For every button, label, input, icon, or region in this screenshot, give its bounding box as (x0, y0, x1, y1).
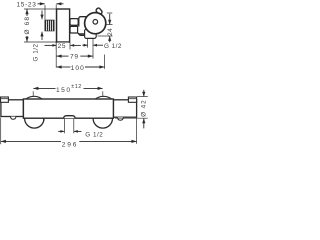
dimension 296 (1, 118, 137, 149)
right escutcheon top arc (95, 96, 112, 99)
wall extension line (55, 5, 57, 68)
hatched inlet nipple (45, 20, 55, 32)
outlet boss lower block (85, 29, 97, 38)
svg-text:79: 79 (70, 53, 79, 60)
handle knob circle (85, 13, 106, 34)
left escutcheon top arc (26, 96, 43, 99)
svg-text:296: 296 (62, 141, 78, 148)
mixer bar body (23, 99, 113, 118)
dimension 15-23 (16, 1, 63, 8)
svg-text:Ø 42: Ø 42 (140, 99, 147, 116)
svg-text:G 1/2: G 1/2 (85, 131, 103, 138)
left knob (1, 100, 24, 117)
dimension 100 (56, 65, 104, 72)
svg-text:24: 24 (107, 28, 114, 36)
dimension 25 (escutcheon depth) (45, 43, 81, 51)
dimension 150 +/-12 (33, 84, 103, 97)
svg-text:±12: ±12 (71, 84, 81, 90)
dimension 79 (56, 53, 93, 60)
union nut (side view) (70, 19, 78, 26)
svg-text:G 1/2: G 1/2 (104, 43, 122, 50)
svg-text:G 1/2: G 1/2 (32, 44, 39, 62)
svg-text:150: 150 (56, 87, 72, 94)
dimension diameter 68 (24, 9, 56, 42)
right knob (113, 100, 136, 117)
extension lines outlet boss (87, 39, 89, 48)
svg-text:25: 25 (58, 43, 66, 50)
right knob screw bump (117, 117, 123, 120)
left knob screw bump (10, 117, 16, 120)
svg-text:Ø 68: Ø 68 (24, 16, 31, 35)
left knob tab (1, 97, 9, 102)
dimension diameter 42 (115, 90, 148, 129)
handle center circle (93, 20, 98, 25)
extension line handle front (104, 55, 106, 69)
right union nut disc (93, 109, 112, 128)
valve body (79, 17, 89, 36)
svg-text:100: 100 (71, 65, 85, 72)
left escutcheon edge nub (43, 118, 45, 120)
left union nut disc (25, 109, 44, 128)
dimension G 1/2 outlet (side view) (82, 43, 122, 50)
escutcheon (side view) (57, 9, 70, 42)
right knob tab (128, 97, 136, 102)
extension line nipple end (44, 5, 46, 20)
handle grip nub (95, 7, 102, 15)
dimension 24 (vertical, right of handle) (98, 13, 115, 42)
dimension G 1/2 inlet nipple (vertical) (40, 11, 43, 41)
svg-text:15-23: 15-23 (16, 1, 36, 8)
bottom outlet nipple sides / extension lines (63, 118, 65, 133)
bottom outlet dome (64, 116, 76, 119)
outlet boss ledge below handle (78, 27, 97, 34)
dimension G 1/2 bottom (58, 130, 103, 138)
